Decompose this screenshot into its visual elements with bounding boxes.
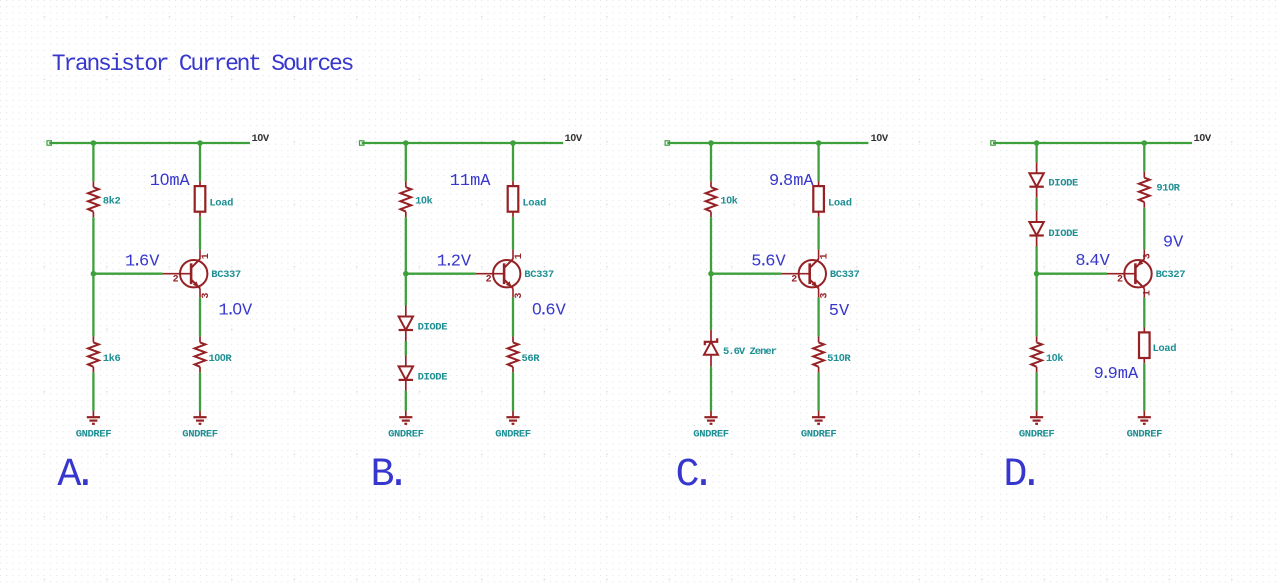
resistor 10k [706,181,717,217]
svg-text:Load: Load [1153,343,1177,355]
svg-text:BC337: BC337 [211,269,241,281]
resistor 8k2 [88,181,99,217]
svg-text:DIODE: DIODE [418,371,448,383]
svg-text:9V: 9V [1163,234,1184,253]
junction [510,140,516,146]
wire rail to top resistor [405,143,407,181]
junction [91,271,97,277]
svg-text:Load: Load [522,197,546,209]
svg-text:DIODE: DIODE [1048,228,1078,240]
power symbol GNDREF (ground) [704,411,717,424]
wire rail to top resistor [710,143,712,181]
svg-text:910R: 910R [1156,181,1180,194]
unconnected wire end marker [665,141,669,145]
wire top branch to base node [710,217,712,274]
junction [197,140,203,146]
svg-text:DIODE: DIODE [1048,177,1078,189]
power symbol GNDREF (ground) [812,411,825,424]
svg-text:2: 2 [1117,275,1123,286]
wire between diodes [1035,198,1037,211]
wire Load to transistor collector [199,217,201,250]
svg-text:GNDREF: GNDREF [801,429,837,441]
svg-text:10k: 10k [415,194,432,207]
svg-text:GNDREF: GNDREF [182,429,218,441]
svg-text:10V: 10V [871,132,889,145]
zener diode (cathode up) [704,330,718,367]
resistor 1k6 [88,336,99,372]
svg-text:B.: B. [371,453,403,498]
svg-text:1: 1 [514,253,525,259]
svg-text:100R: 100R [209,352,233,365]
wire to ground [405,391,407,411]
svg-text:DIODE: DIODE [418,322,448,334]
svg-text:GNDREF: GNDREF [693,429,729,441]
resistor 510R [813,336,824,372]
svg-text:GNDREF: GNDREF [1019,429,1055,441]
wire top branch to base node [92,217,94,274]
transistor BC337 (NPN) [476,250,521,298]
wire to ground [512,372,514,411]
resistor 10k [400,181,411,217]
wire between diodes [405,341,407,355]
junction [403,140,409,146]
base node wire to lower branch [92,274,94,337]
diode (cathode down) [1029,162,1043,198]
svg-text:BC337: BC337 [830,269,860,281]
svg-text:BC337: BC337 [524,269,554,281]
circuit B: 10V power rail wire [362,142,564,144]
diode (cathode down) [1029,211,1043,247]
wire top branch to base node [405,217,407,274]
resistor Load (box symbol) [813,181,824,217]
wire base node to transistor base [711,273,781,275]
wire transistor collector to Load [1143,297,1145,327]
svg-text:Transistor Current Sources: Transistor Current Sources [52,51,353,77]
wire base node to transistor base [1037,273,1107,275]
junction [708,140,714,146]
svg-text:2: 2 [791,275,797,286]
svg-text:GNDREF: GNDREF [388,429,424,441]
svg-text:5.6V: 5.6V [751,253,786,272]
svg-text:8.4V: 8.4V [1075,252,1110,271]
power symbol GNDREF (ground) [193,411,206,424]
svg-text:1: 1 [201,253,212,259]
svg-text:GNDREF: GNDREF [76,429,112,441]
svg-text:10mA: 10mA [150,170,191,191]
svg-text:56R: 56R [522,353,541,365]
svg-text:0.6V: 0.6V [532,299,566,320]
resistor Load (box symbol) [508,181,519,217]
svg-text:3: 3 [1143,253,1154,259]
junction [1034,271,1040,277]
wire to ground [710,367,712,411]
svg-text:GNDREF: GNDREF [1127,429,1163,441]
svg-text:BC327: BC327 [1156,269,1186,281]
svg-text:D.: D. [1003,453,1035,498]
wire base node to transistor base [93,273,162,275]
svg-text:C.: C. [676,453,708,498]
svg-text:1.0V: 1.0V [219,299,253,320]
circuit D: 10V power rail wire [993,142,1192,144]
junction [403,271,409,277]
unconnected wire end marker [991,141,995,145]
wire 910R to transistor emitter [1143,208,1145,250]
wire rail to Load [817,143,819,181]
svg-text:3: 3 [201,293,212,299]
svg-text:9.9mA: 9.9mA [1094,365,1139,384]
svg-text:GNDREF: GNDREF [495,429,531,441]
svg-text:11mA: 11mA [450,172,492,191]
resistor 910R [1139,172,1150,208]
wire transistor emitter to resistor [199,297,201,336]
junction [1142,140,1148,146]
base node wire to lower branch [405,274,407,306]
svg-text:Load: Load [828,197,852,209]
svg-text:10V: 10V [1194,132,1212,145]
svg-text:10V: 10V [565,132,583,145]
wire top branch to base node [1035,247,1037,274]
circuit C: 10V power rail wire [667,142,868,144]
diode (cathode down) [399,306,413,342]
svg-text:5V: 5V [829,302,850,321]
svg-text:5.6V Zener: 5.6V Zener [723,346,777,358]
power symbol GNDREF (ground) [1030,411,1043,424]
svg-text:A.: A. [57,453,89,498]
base node wire to lower branch [710,274,712,330]
wire Load to transistor collector [817,217,819,250]
transistor BC337 (NPN) [163,250,208,298]
svg-text:3: 3 [820,293,831,299]
power symbol GNDREF (ground) [1138,411,1151,424]
power symbol GNDREF (ground) [506,411,519,424]
svg-text:8k2: 8k2 [103,195,121,207]
junction [816,140,822,146]
svg-text:2: 2 [173,275,179,286]
wire rail to Load [199,143,201,181]
wire transistor emitter to resistor [817,297,819,336]
wire to ground [92,372,94,411]
svg-text:1: 1 [820,253,831,259]
resistor 100R [195,336,206,372]
svg-text:1.2V: 1.2V [437,253,472,272]
svg-text:510R: 510R [827,352,851,365]
wire rail to diode 1 [1035,143,1037,162]
svg-text:2: 2 [486,275,492,286]
wire rail to top resistor [92,143,94,181]
svg-text:10k: 10k [720,194,737,207]
resistor Load (box symbol) [195,181,206,217]
svg-text:1: 1 [1143,290,1154,296]
resistor Load (box symbol) [1139,327,1150,363]
junction [91,140,97,146]
diode (cathode down) [399,355,413,391]
wire to ground [1035,372,1037,411]
transistor BC337 (NPN) [781,250,826,298]
wire rail to resistor 910R [1143,143,1145,172]
junction [708,271,714,277]
svg-text:1k6: 1k6 [103,353,121,365]
wire rail to Load [512,143,514,181]
wire to ground [199,372,201,411]
svg-text:Load: Load [209,197,233,209]
svg-text:1.6V: 1.6V [125,253,160,272]
svg-text:10V: 10V [252,132,270,145]
power symbol GNDREF (ground) [87,411,100,424]
base node wire to lower branch [1035,274,1037,337]
junction [1034,140,1040,146]
wire to ground [817,372,819,411]
circuit A: 10V power rail wire [49,142,250,144]
svg-text:9.8mA: 9.8mA [769,172,814,191]
unconnected wire end marker [47,141,51,145]
wire Load to transistor collector [512,217,514,250]
unconnected wire end marker [360,141,364,145]
wire to ground [1143,363,1145,411]
svg-text:3: 3 [514,293,525,299]
wire base node to transistor base [406,273,476,275]
svg-text:10k: 10k [1046,352,1063,365]
transistor BC327 (PNP) [1107,250,1152,298]
power symbol GNDREF (ground) [399,411,412,424]
resistor 10k [1031,336,1042,372]
wire transistor emitter to resistor [512,297,514,336]
resistor 56R [508,336,519,372]
